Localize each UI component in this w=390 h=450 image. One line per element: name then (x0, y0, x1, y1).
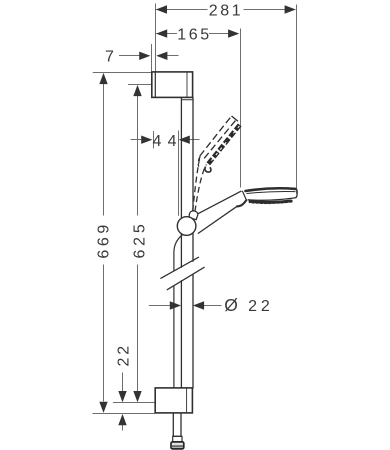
svg-text:281: 281 (209, 3, 244, 20)
svg-text:5: 5 (131, 222, 148, 234)
dimension line 22 vertical (122, 373, 124, 392)
extension line 44 left (153, 131, 155, 149)
arrow 44 right pointing left (179, 136, 190, 144)
label 625 rotated (131, 222, 148, 259)
dimension line 44 (131, 139, 200, 141)
label 669 rotated (96, 222, 113, 259)
reference line top 669 (93, 72, 152, 74)
dimension line 165 (156, 33, 234, 35)
arrow 22 down (118, 391, 126, 402)
svg-text:2: 2 (131, 234, 148, 246)
arrow 625 top (133, 85, 141, 96)
hook at dashed head bottom (205, 167, 211, 173)
break mark diagonal 1 (161, 257, 199, 278)
reference line bottom 669 (93, 413, 156, 415)
svg-text:4: 4 (168, 133, 180, 150)
svg-text:6: 6 (96, 247, 113, 259)
hand shower dashed position handle (193, 159, 207, 212)
wall bracket bottom (155, 388, 192, 413)
svg-text:2: 2 (248, 298, 260, 315)
dimension line 669 vertical (103, 84, 105, 402)
tail line below 22 up arrow (122, 425, 124, 431)
dimension line diameter 22 (149, 305, 222, 307)
arrow diameter 22 pointing right (170, 301, 181, 309)
svg-text:2: 2 (116, 355, 133, 367)
slider clamp nub (189, 211, 198, 220)
arrow 7 right pointing left (156, 52, 167, 60)
hand shower solid handle (194, 191, 246, 234)
slider ball (177, 217, 196, 236)
svg-text:6: 6 (96, 235, 113, 247)
svg-text:7: 7 (105, 48, 117, 65)
dimension line 625 vertical (137, 96, 139, 391)
rail left edge (180, 97, 182, 388)
arrow 281 left (156, 5, 167, 13)
svg-text:165: 165 (177, 26, 212, 43)
arrow 165 right (228, 29, 239, 37)
spray face band (250, 201, 291, 202)
svg-text:6: 6 (131, 247, 148, 258)
arrow 165 left (156, 29, 167, 37)
svg-text:Ø: Ø (224, 295, 238, 315)
arrow 669 bottom (99, 402, 107, 413)
hatch band of dashed head (208, 124, 241, 164)
hand shower dashed position head (198, 116, 241, 172)
hose tube below bracket (173, 413, 182, 442)
hose connector cap (171, 442, 184, 449)
arrow 44 left pointing right (141, 136, 152, 144)
arrow 7 left pointing right (139, 52, 150, 60)
reference line bottom 625 (113, 402, 155, 404)
arrow 625 bottom (133, 391, 141, 402)
hose line (174, 235, 183, 388)
arrow 22 up (118, 414, 126, 425)
hand shower solid head (246, 188, 298, 204)
svg-text:2: 2 (116, 343, 133, 355)
hose nut (173, 436, 182, 442)
extension line wall plane x=155 (155, 4, 157, 72)
arrow 669 top (99, 73, 107, 84)
dimension line 281 (156, 9, 295, 11)
rail top cap below bracket (182, 99, 193, 101)
extension line head right x=296.7 (296, 5, 298, 194)
svg-text:4: 4 (152, 133, 164, 150)
svg-text:9: 9 (96, 222, 113, 234)
reference line top 625 (128, 84, 152, 86)
hatch band texture line (208, 124, 241, 164)
arrow 281 right (285, 5, 296, 13)
extension line head left x=240 (240, 29, 242, 188)
svg-text:2: 2 (261, 298, 273, 315)
wall bracket top (152, 72, 193, 98)
extension line 44 right (178, 131, 180, 216)
rail right edge (192, 97, 194, 388)
extension line 7 left (151, 44, 153, 72)
label 22 rotated (116, 343, 133, 366)
break mark diagonal 2 (167, 267, 204, 289)
dimension line 7 (119, 55, 179, 57)
arrow diameter 22 pointing left (193, 301, 204, 309)
